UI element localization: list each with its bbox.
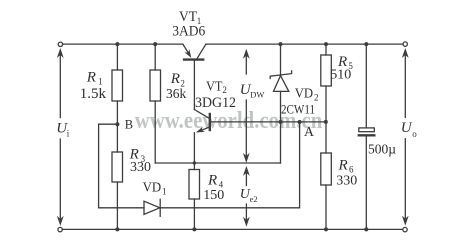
- wire node B to left and down: [99, 124, 118, 208]
- svg-text:3AD6: 3AD6: [172, 23, 205, 39]
- wire top rail left of VT1: [63, 43, 183, 45]
- Ui voltage arrow: [57, 48, 64, 226]
- node dot R2/top rail: [153, 42, 157, 46]
- svg-text:VD: VD: [295, 86, 313, 101]
- svg-text:A: A: [304, 124, 314, 139]
- svg-text:36k: 36k: [166, 86, 187, 101]
- node dot R6/bottom rail: [324, 227, 328, 231]
- base lead down: [193, 60, 195, 110]
- wire node A horizontal (VT2 base to R5/R6): [210, 121, 326, 123]
- svg-text:U: U: [401, 120, 413, 136]
- node dot emitter/R4 junction: [193, 161, 196, 164]
- resistor R1: [112, 44, 123, 124]
- wire VD1 horizontal from B branch: [99, 207, 144, 209]
- diode VD1: [144, 199, 160, 216]
- base bar (vertical): [209, 114, 211, 130]
- resistor R2: [150, 44, 161, 163]
- voltage arrow Ue2: [243, 166, 250, 227]
- emitter with arrow (PNP, pointing into base): [183, 44, 189, 54]
- resistor R5: [321, 44, 332, 122]
- svg-text:500µ: 500µ: [368, 142, 396, 157]
- wire emitter rail y163: [155, 162, 280, 164]
- svg-text:510: 510: [330, 68, 351, 83]
- svg-text:o: o: [412, 129, 417, 139]
- svg-text:330: 330: [336, 173, 357, 188]
- zener diode VD2: [270, 44, 291, 122]
- node dot R5 R6 junction: [324, 120, 328, 124]
- wire VD1 cathode to node A riser: [160, 122, 300, 208]
- input terminal top: [58, 42, 62, 46]
- svg-text:R: R: [170, 71, 180, 87]
- svg-text:R: R: [338, 157, 348, 173]
- node dot cap/bottom rail: [364, 227, 368, 231]
- node A dot: [298, 120, 302, 124]
- svg-text:e2: e2: [250, 194, 258, 204]
- svg-text:150: 150: [203, 188, 224, 203]
- resistor R6: [321, 122, 332, 229]
- svg-text:2: 2: [222, 85, 227, 95]
- resistor R3: [112, 124, 123, 229]
- svg-text:2CW11: 2CW11: [281, 103, 315, 117]
- emitter diagonal with arrow (NPN, out of bar): [198, 127, 210, 132]
- svg-text:DW: DW: [250, 90, 264, 100]
- base bar (horizontal): [184, 58, 203, 60]
- svg-text:330: 330: [130, 160, 151, 175]
- svg-text:3DG12: 3DG12: [195, 95, 236, 111]
- svg-text:B: B: [125, 118, 133, 132]
- collector diagonal from VT1 base lead: [194, 110, 209, 119]
- transistor VT1: [183, 44, 206, 109]
- svg-text:VT: VT: [206, 79, 223, 94]
- output terminal top: [403, 42, 407, 46]
- resistor R4: [189, 163, 200, 229]
- wire top rail right of VT1: [206, 43, 403, 45]
- voltage arrow Uo: [402, 48, 409, 226]
- wire bottom rail: [62, 228, 403, 230]
- collector: [197, 44, 206, 59]
- wire riser x280.5 (y163 wire up to node A wire): [280, 122, 282, 163]
- svg-text:R: R: [207, 173, 217, 189]
- node dot R3/bottom rail: [115, 227, 119, 231]
- node dot R1/top rail: [115, 42, 119, 46]
- input terminal bottom: [58, 227, 62, 231]
- node dot cap/top rail: [364, 42, 368, 46]
- emitter lead down: [193, 133, 195, 163]
- output terminal bottom: [403, 227, 407, 231]
- svg-text:1: 1: [98, 76, 103, 86]
- node dot zener/wire A: [279, 120, 283, 124]
- node dot R4/bottom rail: [192, 227, 196, 231]
- node dot R5/top rail: [324, 42, 328, 46]
- svg-text:1: 1: [162, 186, 167, 196]
- node dot VD2/top rail: [279, 42, 283, 46]
- voltage arrow UDW: [243, 49, 250, 163]
- transistor VT2: [194, 110, 209, 164]
- svg-text:2: 2: [314, 92, 319, 102]
- capacitor C 500u: [359, 44, 375, 229]
- svg-text:VD: VD: [143, 180, 162, 195]
- svg-text:R: R: [86, 69, 96, 85]
- svg-text:1.5k: 1.5k: [80, 86, 107, 102]
- node B dot: [115, 122, 119, 126]
- svg-text:i: i: [67, 129, 70, 139]
